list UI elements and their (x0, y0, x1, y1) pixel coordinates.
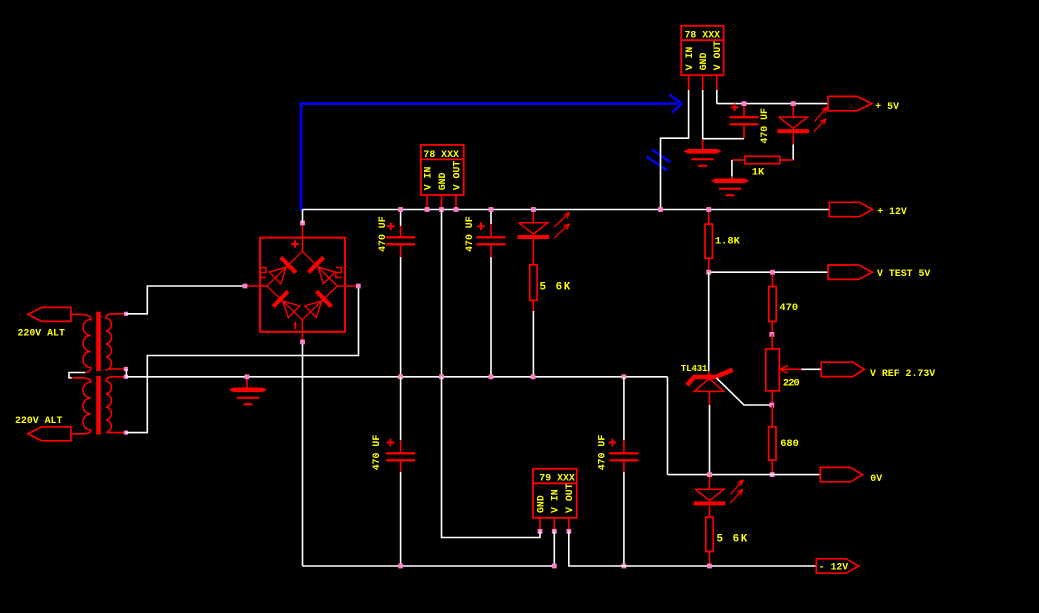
transformer TR1 core (96, 312, 101, 371)
wire bridge - to bottom rail (302, 344, 304, 566)
svg-text:78 XXX: 78 XXX (423, 149, 459, 160)
op-amp U1 78XX box (681, 26, 723, 75)
svg-text:78 XXX: 78 XXX (685, 30, 721, 41)
connector +12V (829, 202, 872, 216)
connector 0V (820, 467, 862, 481)
wire RV1 bottom stub (771, 391, 773, 405)
svg-text:V OUT: V OUT (712, 41, 723, 71)
led D2 (779, 117, 808, 128)
wire C5 bottom (743, 124, 745, 138)
svg-text:V IN: V IN (684, 47, 695, 71)
junction U3 ref / RV1 bottom (769, 403, 774, 408)
junction R2 at GND rail (531, 374, 536, 379)
svg-text:V OUT: V OUT (451, 161, 462, 191)
wire C3 top (400, 377, 402, 440)
junction C1 at +12V (398, 207, 403, 212)
svg-text:GND: GND (698, 53, 709, 71)
svg-text:79 XXX: 79 XXX (539, 473, 575, 484)
wire D3 to R2 (532, 239, 534, 265)
resistor R1 1K (745, 156, 780, 163)
wire U4 GND to GND rail (442, 377, 541, 538)
svg-text:5 6K: 5 6K (540, 282, 572, 294)
resistor R5 680 (769, 427, 776, 460)
svg-text:680: 680 (780, 438, 799, 450)
RV1 wiper arrow (780, 368, 801, 370)
wire C1 bottom (400, 244, 402, 257)
pin bridge - (300, 340, 305, 345)
wire bridge AC2 stub (337, 285, 358, 287)
wire R5 top stub (771, 405, 773, 427)
bridge D1 diode upper-left (267, 251, 302, 286)
junction C3 at GND rail (622, 374, 627, 379)
wire C2 bottom (490, 244, 492, 257)
connector V REF 2.73V (821, 362, 864, 376)
svg-text:GND: GND (535, 495, 546, 513)
junction C2 at +12V (489, 207, 494, 212)
junction D3 at +12V (531, 207, 536, 212)
transformer TR1 primary winding upper (71, 314, 91, 372)
wire D2 top (792, 104, 794, 117)
svg-text:1K: 1K (752, 167, 765, 179)
led D4 (695, 489, 724, 500)
wire D2 to R1 (792, 144, 794, 160)
wire secondary centertap link (125, 369, 127, 377)
wire U1 V OUT to +5V rail (716, 90, 718, 104)
svg-text:470: 470 (779, 302, 798, 314)
C1 plus mark (387, 225, 395, 227)
junction R3 at V TEST (706, 270, 711, 275)
capacitor C4 470UF (609, 452, 638, 454)
junction C3 at bottom rail (398, 564, 403, 569)
wire D2 bottom red (792, 133, 794, 144)
wire R6 bottom stub (709, 552, 711, 567)
svg-text:0V: 0V (870, 473, 882, 484)
wire R1 to ground (731, 160, 733, 177)
pin U2 GND (439, 207, 444, 212)
resistor R4 470 (769, 287, 776, 322)
svg-text:TL431: TL431 (681, 363, 708, 374)
wire bridge + stub (302, 223, 304, 251)
ground G1 (684, 149, 722, 154)
transformer TR1 secondary winding lower (106, 377, 126, 433)
wire U3 anode (709, 391, 711, 405)
capacitor C2 470UF (477, 236, 506, 238)
pin U2 V OUT (454, 207, 459, 212)
wire C4 top (623, 377, 625, 440)
wire U3 cathode (708, 272, 710, 371)
wire wiper to V REF conn (801, 368, 821, 370)
capacitor C1 470UF (386, 236, 415, 238)
pin U2 stubs (426, 195, 428, 209)
pin RV1 top (769, 332, 774, 337)
wire D4 to R6 (709, 506, 711, 517)
wire U4 V IN down (553, 531, 555, 566)
wire GND rail (126, 376, 668, 378)
wire U3 ref diagonal (717, 378, 772, 405)
wire blue to 78XX input (301, 104, 678, 212)
wire C5 top (743, 104, 745, 118)
transformer TR1 primary winding lower (71, 378, 91, 434)
pin U4 V IN (552, 529, 557, 534)
junction C1 at GND rail (398, 374, 403, 379)
ground G2 (711, 179, 749, 184)
svg-text:- 12V: - 12V (819, 562, 849, 573)
wire R3 top stub (708, 210, 710, 225)
wire R1 right stub (780, 159, 793, 161)
wire R1 left stub (732, 159, 745, 161)
wire sec-top to bridge AC1 (126, 286, 243, 314)
bridge D1 diode lower-right (302, 286, 337, 320)
ground G3 (229, 388, 267, 393)
bridge D1 diode upper-right (302, 251, 337, 286)
bridge D1 plus mark (291, 243, 299, 245)
wire D3 top (532, 210, 534, 223)
wire +12V rail (303, 209, 830, 211)
capacitor C5 470UF (730, 116, 759, 118)
svg-text:470 UF: 470 UF (759, 108, 770, 144)
bridge rectifier D1 box (260, 238, 345, 332)
wire U1 V IN to +12V (661, 90, 689, 210)
junction R6 at -12V line (707, 564, 712, 569)
wire R5 bottom stub (771, 460, 773, 474)
C4 plus mark (609, 442, 617, 444)
junction R4 at V TEST (770, 270, 775, 275)
wire U4 V OUT down (569, 531, 817, 566)
junction C5 at +5V (742, 101, 747, 106)
U3 TL431 triangle (694, 379, 724, 392)
junction blue riser at +12V (658, 207, 663, 212)
wire bridge + riser (302, 210, 304, 224)
pin bridge AC2 (356, 284, 361, 289)
svg-text:+ 5V: + 5V (875, 101, 899, 112)
connector P1 220V ALT (28, 307, 71, 321)
wire U2 GND down to GND rail (441, 210, 443, 377)
led D3 (519, 223, 548, 234)
blue crossing slashes (652, 150, 670, 163)
wire bridge - stub (301, 320, 303, 342)
wire R4 bottom stub (771, 322, 773, 335)
op-amp U4 79XX box (533, 469, 577, 518)
connector -12V (816, 559, 859, 573)
wire D4 top (709, 475, 711, 490)
wire V TEST rail (709, 271, 828, 273)
C5 plus mark (731, 106, 739, 108)
wire sec-bottom to bridge AC2 (126, 287, 359, 433)
junction D4 at 0V (707, 472, 712, 477)
pin TR1 sec mid-a (124, 367, 128, 371)
wire bridge AC1 stub (245, 285, 267, 287)
wire R3 bottom stub (708, 258, 710, 272)
bridge D1 AC mark right (336, 268, 342, 278)
pin U1 stubs (688, 75, 690, 90)
wire C2 top (490, 210, 492, 225)
wire +5V rail (717, 103, 828, 105)
wire U1 GND down (702, 90, 704, 139)
junction C2 at GND rail (489, 374, 494, 379)
connector +5V (828, 96, 872, 110)
wire R4 top stub (772, 272, 774, 286)
wire C4 bottom (623, 460, 625, 472)
svg-text:GND: GND (437, 172, 448, 190)
wire RV1 top stub (771, 334, 773, 348)
svg-text:+ 12V: + 12V (877, 206, 907, 217)
pin TR1 sec top (124, 312, 128, 316)
connector V TEST 5V (828, 265, 872, 279)
C2 plus mark (477, 225, 485, 227)
capacitor C3 470UF (386, 452, 415, 454)
junction U2-GND at GND rail (439, 374, 444, 379)
bridge D1 AC mark left (261, 268, 267, 278)
resistor R2 5 6K (530, 265, 537, 301)
svg-text:220V ALT: 220V ALT (15, 415, 62, 426)
pin bridge AC1 (243, 284, 248, 289)
resistor R3 1.8K (705, 224, 712, 258)
svg-text:V IN: V IN (550, 489, 561, 513)
svg-text:220V ALT: 220V ALT (18, 327, 65, 338)
wire C1 top (400, 210, 402, 227)
svg-text:470 UF: 470 UF (377, 216, 388, 252)
pin bridge + (300, 221, 305, 226)
pin U4 V OUT (566, 529, 571, 534)
wire bottom rail left (303, 565, 555, 567)
pin U4 stubs (539, 518, 541, 532)
pin TR1 sec mid-b (124, 375, 128, 379)
pin U2 V IN (425, 207, 430, 212)
junction U4 V IN at bottom rail (552, 564, 557, 569)
pin TR1 sec bottom (124, 431, 128, 435)
transformer TR1 secondary winding upper (106, 314, 126, 370)
wire C5 to GND link (703, 138, 744, 140)
bridge D1 diode lower-left (267, 286, 302, 320)
pin U4 GND (538, 529, 543, 534)
svg-text:470 UF: 470 UF (464, 216, 475, 252)
C3 plus mark (387, 442, 395, 444)
connector P2 220V ALT (28, 427, 71, 441)
blue arrowhead (670, 95, 683, 104)
svg-text:1.8K: 1.8K (715, 236, 741, 248)
svg-text:220: 220 (783, 378, 800, 390)
svg-text:V IN: V IN (423, 167, 434, 191)
svg-text:V TEST 5V: V TEST 5V (877, 268, 930, 279)
junction R5 at 0V (770, 472, 775, 477)
wire 0V line (668, 474, 821, 476)
wire R2 bottom (532, 300, 534, 311)
svg-text:470 UF: 470 UF (371, 435, 382, 471)
svg-text:V REF 2.73V: V REF 2.73V (870, 368, 935, 379)
svg-text:470 UF: 470 UF (597, 435, 608, 471)
svg-text:V OUT: V OUT (564, 483, 575, 513)
wire primary center link (69, 373, 85, 378)
junction R3 at +12V (706, 207, 711, 212)
junction D2 at +5V (791, 101, 796, 106)
junction C4 at -12V line (622, 564, 627, 569)
wire GND rail corner down (667, 377, 669, 475)
op-amp U2 78XX box (421, 145, 464, 195)
wire C3 bottom (400, 460, 402, 472)
transistor U3 TL431 bar (687, 370, 733, 386)
svg-text:5 6K: 5 6K (717, 533, 749, 545)
potentiometer RV1 220 (766, 349, 780, 391)
junction G3 at GND rail (245, 374, 250, 379)
resistor R6 5 6K (706, 517, 713, 551)
bridge D1 minus mark (294, 322, 296, 329)
